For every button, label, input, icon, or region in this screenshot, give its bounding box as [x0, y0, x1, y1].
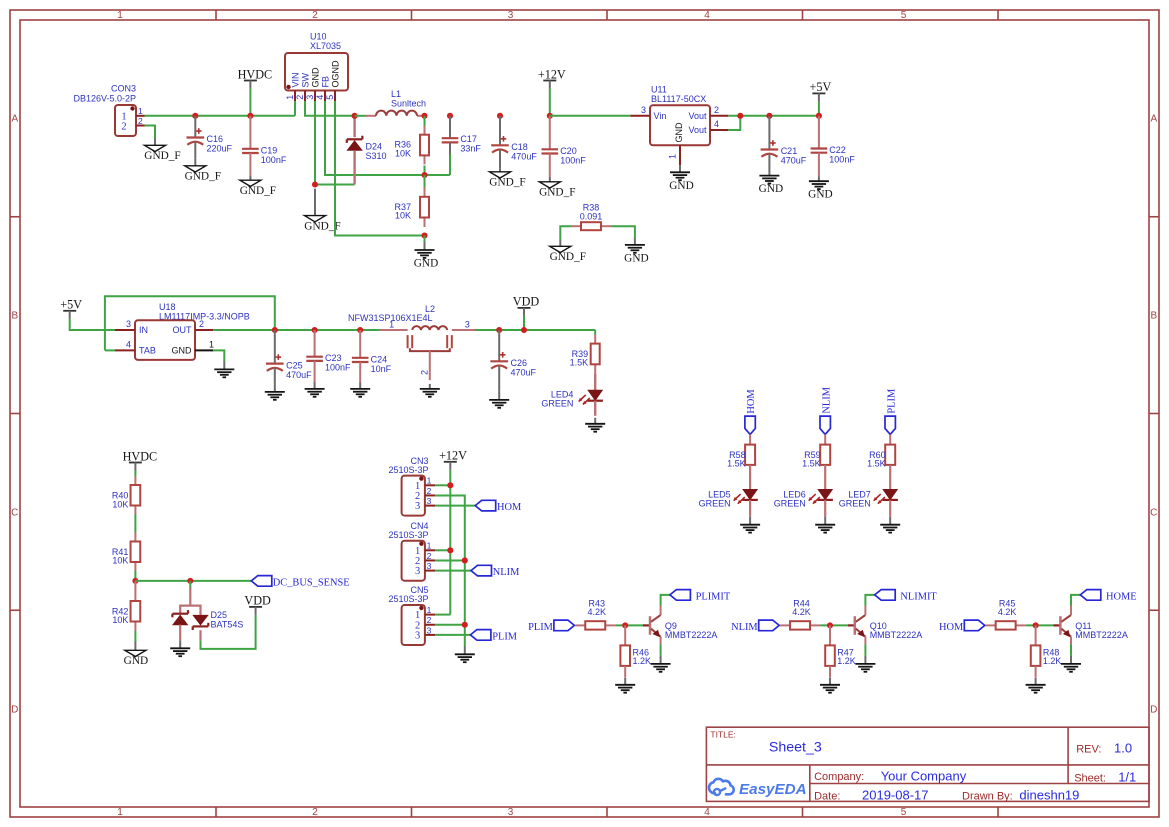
- svg-text:3: 3: [415, 501, 420, 512]
- svg-text:100nF: 100nF: [829, 154, 855, 164]
- wire emitter to ground: [660, 644, 662, 656]
- svg-text:4: 4: [704, 807, 710, 818]
- svg-text:100nF: 100nF: [261, 155, 287, 165]
- svg-text:1: 1: [427, 605, 432, 615]
- wire D25 right to VDD: [201, 615, 256, 649]
- wire R38 right to GND: [611, 226, 635, 238]
- ground below C26: [489, 392, 509, 408]
- net flag HOM input: [939, 620, 985, 633]
- svg-text:2: 2: [427, 615, 432, 625]
- svg-text:2: 2: [312, 10, 318, 21]
- wire emitter to ground: [1070, 644, 1072, 656]
- ground below LED5: [740, 517, 760, 533]
- ground below R46: [615, 678, 635, 693]
- svg-text:1: 1: [117, 807, 123, 818]
- ground below C23: [305, 382, 325, 397]
- capacitor C19 100nF: [242, 116, 287, 178]
- junction C21 top: [766, 113, 772, 119]
- svg-text:GREEN: GREEN: [774, 498, 806, 508]
- company field: [814, 768, 967, 783]
- junction base / R47: [827, 622, 833, 628]
- wire HVDC down to rail: [249, 89, 251, 116]
- svg-text:220uF: 220uF: [207, 144, 233, 154]
- capacitor C22 100nF: [811, 116, 856, 177]
- ground GND_F below C19: [240, 176, 276, 197]
- svg-text:10K: 10K: [395, 211, 411, 221]
- svg-text:33nF: 33nF: [460, 144, 481, 154]
- svg-text:D: D: [11, 705, 18, 716]
- ground below R47: [820, 678, 840, 693]
- svg-text:D24: D24: [366, 142, 383, 152]
- svg-text:S310: S310: [366, 151, 387, 161]
- junction R36 bottom / R37 top: [421, 172, 427, 178]
- wire +12V down to CN pin1 column: [449, 470, 451, 615]
- wire +5V corner to TAB pin: [105, 349, 115, 351]
- svg-text:1.2K: 1.2K: [633, 656, 652, 666]
- resistor R46 1.2K: [620, 625, 651, 677]
- transistor Q11 MMBT2222A: [1060, 606, 1127, 645]
- svg-text:2: 2: [199, 319, 204, 329]
- connector CN3 2510S-3P: [388, 456, 435, 516]
- wire base stub: [643, 624, 650, 626]
- svg-text:3: 3: [508, 807, 514, 818]
- svg-text:C16: C16: [207, 134, 224, 144]
- svg-text:BL1117-50CX: BL1117-50CX: [651, 94, 706, 104]
- junction C22 top: [816, 113, 822, 119]
- connector CON3 DB126V-5.0-2P: [73, 84, 144, 137]
- net flag HOME output: [1080, 590, 1136, 603]
- svg-text:CON3: CON3: [111, 84, 136, 94]
- ground GND_F left of R38: [550, 240, 586, 263]
- ground below L2 pin2: [420, 384, 440, 397]
- wire junction to R37: [424, 175, 426, 188]
- svg-text:Your Company: Your Company: [881, 768, 967, 783]
- svg-text:1: 1: [209, 339, 214, 349]
- svg-text:VDD: VDD: [513, 295, 540, 309]
- wire junction to R36: [424, 116, 426, 127]
- resistor R48 1.2K: [1031, 625, 1062, 677]
- filter L2 NFW31SP106X1E4L: [348, 304, 475, 380]
- svg-text:1.2K: 1.2K: [1043, 656, 1062, 666]
- svg-text:3: 3: [415, 566, 420, 577]
- svg-text:1: 1: [668, 154, 678, 159]
- svg-text:C: C: [11, 508, 18, 519]
- wire U11 Vout pin2 to +5V rail: [728, 115, 819, 117]
- frame column numbers top: [117, 10, 907, 21]
- junction VDD: [521, 327, 527, 333]
- svg-text:OUT: OUT: [173, 325, 193, 335]
- ground below Q11 emitter: [1061, 656, 1081, 672]
- svg-text:IN: IN: [139, 325, 148, 335]
- svg-text:GND: GND: [669, 180, 693, 192]
- svg-text:1: 1: [427, 541, 432, 551]
- junction DC_BUS_SENSE: [132, 578, 138, 584]
- svg-text:HVDC: HVDC: [238, 67, 273, 81]
- svg-text:HOM: HOM: [497, 502, 521, 513]
- node +12V top: [538, 67, 566, 88]
- svg-text:4: 4: [704, 10, 710, 21]
- svg-text:GREEN: GREEN: [839, 498, 871, 508]
- svg-text:4.2K: 4.2K: [998, 607, 1017, 617]
- junction C25 top / TAB loop: [272, 327, 278, 333]
- svg-text:D25: D25: [211, 610, 228, 620]
- junction CN3 pin1 +12V: [447, 482, 453, 488]
- svg-text:C24: C24: [371, 354, 388, 364]
- svg-text:10K: 10K: [112, 556, 128, 566]
- LED6 GREEN: [774, 489, 833, 516]
- junction CN4 pin1 +12V: [447, 547, 453, 553]
- junction base / R46: [622, 622, 628, 628]
- node HVDC row C: [123, 449, 158, 470]
- svg-text:1.5K: 1.5K: [867, 458, 886, 468]
- svg-text:470uF: 470uF: [511, 367, 537, 377]
- inductor L1 Sunltech: [355, 89, 426, 116]
- svg-text:D: D: [1150, 705, 1157, 716]
- svg-text:100nF: 100nF: [325, 363, 351, 373]
- junction D24 top: [352, 113, 358, 119]
- wire R36 bottom to junction: [424, 166, 426, 176]
- resistor R37 10K: [394, 187, 429, 227]
- frame row letters left: [11, 114, 18, 716]
- wire CN5 pin2 stub: [435, 624, 465, 626]
- svg-text:470uF: 470uF: [781, 156, 807, 166]
- svg-text:MMBT2222A: MMBT2222A: [665, 630, 718, 640]
- sheet field: [1074, 769, 1136, 784]
- svg-text:MMBT2222A: MMBT2222A: [870, 630, 923, 640]
- ground below Q9 emitter: [651, 656, 671, 672]
- svg-text:C: C: [1150, 508, 1157, 519]
- wire +5V down: [818, 101, 820, 115]
- svg-text:4: 4: [714, 119, 719, 129]
- svg-text:10K: 10K: [112, 615, 128, 625]
- svg-text:Vout: Vout: [688, 111, 707, 121]
- resistor R43 4.2K: [575, 598, 615, 629]
- wire base stub: [1053, 624, 1060, 626]
- svg-text:2510S-3P: 2510S-3P: [388, 594, 428, 604]
- svg-text:1: 1: [117, 10, 123, 21]
- ground below LED6: [815, 517, 835, 533]
- svg-text:C21: C21: [781, 146, 798, 156]
- svg-text:2: 2: [714, 105, 719, 115]
- svg-text:FB: FB: [320, 76, 330, 88]
- ground GND_F below C16: [185, 159, 221, 183]
- net flag PLIM vertical: [885, 389, 897, 435]
- title block frame: [706, 727, 1149, 801]
- svg-text:A: A: [1150, 114, 1157, 125]
- wire collector to PLIMIT flag: [661, 595, 670, 606]
- ground below R48: [1026, 678, 1046, 693]
- ground below D25 left: [170, 640, 190, 656]
- wire U18 TAB loop to OUT rail: [105, 296, 275, 350]
- svg-text:GND: GND: [759, 183, 783, 195]
- svg-text:C19: C19: [261, 145, 278, 155]
- wire R43 to base junction: [615, 624, 643, 626]
- capacitor C23 100nF: [306, 330, 351, 382]
- svg-text:GND: GND: [624, 252, 648, 264]
- ground GND below R37: [414, 242, 438, 270]
- svg-text:1.0: 1.0: [1114, 741, 1132, 756]
- svg-text:DB126V-5.0-2P: DB126V-5.0-2P: [73, 94, 136, 104]
- svg-text:3: 3: [305, 95, 315, 100]
- wire U10 pin1 VIN down to input rail: [294, 101, 296, 116]
- svg-text:VDD: VDD: [244, 594, 271, 608]
- capacitor C26 470uF polarized: [490, 330, 536, 392]
- capacitor C17 33nF: [442, 116, 482, 155]
- svg-text:NLIM: NLIM: [731, 622, 758, 633]
- svg-text:3: 3: [415, 631, 420, 642]
- svg-text:3: 3: [427, 496, 432, 506]
- node +5V row B: [60, 298, 82, 319]
- svg-text:GREEN: GREEN: [541, 399, 573, 409]
- svg-text:4: 4: [126, 339, 131, 349]
- junction R36 top: [421, 113, 427, 119]
- svg-text:NLIMIT: NLIMIT: [900, 592, 937, 603]
- wire R44 to base junction: [820, 624, 848, 626]
- svg-text:PLIM: PLIM: [886, 389, 897, 414]
- svg-text:GND: GND: [172, 346, 193, 356]
- junction CN4 pin2: [462, 557, 468, 563]
- svg-text:+12V: +12V: [538, 67, 566, 81]
- svg-text:2019-08-17: 2019-08-17: [862, 788, 929, 803]
- wire DC_BUS_SENSE rail: [135, 580, 251, 582]
- ground GND right of R38: [624, 238, 648, 265]
- svg-text:2510S-3P: 2510S-3P: [388, 465, 428, 475]
- svg-text:U18: U18: [159, 302, 176, 312]
- svg-text:100nF: 100nF: [560, 155, 586, 165]
- svg-text:2510S-3P: 2510S-3P: [388, 530, 428, 540]
- resistor R45 4.2K: [986, 598, 1026, 629]
- svg-text:U11: U11: [651, 85, 667, 95]
- svg-text:Date:: Date:: [814, 791, 840, 803]
- junction D25 branch: [187, 578, 193, 584]
- resistor R41 10K: [112, 533, 140, 572]
- ground GND below R42 triangle style: [124, 642, 148, 667]
- net flag NLIM input: [731, 620, 779, 633]
- regulator U10 XL7035: [285, 32, 348, 102]
- wire +12V down to rail: [549, 89, 551, 116]
- resistor R47 1.2K: [825, 625, 856, 677]
- ground below Q10 emitter: [855, 656, 875, 672]
- diode D25 BAT54S dual schottky: [172, 581, 243, 640]
- svg-text:+5V: +5V: [60, 298, 82, 312]
- svg-text:GND: GND: [414, 258, 438, 270]
- svg-text:1/1: 1/1: [1118, 769, 1136, 784]
- net flag NLIM at CN4: [471, 565, 519, 578]
- svg-text:TAB: TAB: [139, 346, 156, 356]
- ground GND below C21: [759, 173, 783, 196]
- LED7 GREEN: [839, 489, 898, 516]
- svg-text:dineshn19: dineshn19: [1019, 788, 1079, 803]
- ground below CN pin2 chain: [455, 646, 475, 662]
- svg-text:Vout: Vout: [688, 125, 707, 135]
- LED5 GREEN: [699, 489, 758, 516]
- wire R38 left to GND_F: [560, 226, 571, 240]
- wire R45 to base junction: [1026, 624, 1054, 626]
- wire CN3 pin3 to HOM flag: [435, 505, 475, 507]
- wire CN5 pin3 to PLIM flag: [435, 634, 470, 636]
- svg-text:1.5K: 1.5K: [802, 458, 821, 468]
- svg-text:A: A: [11, 114, 18, 125]
- svg-text:1: 1: [138, 106, 143, 116]
- resistor R60 1.5K: [867, 434, 895, 489]
- svg-text:PLIM: PLIM: [528, 622, 553, 633]
- junction Vout pins: [737, 113, 743, 119]
- ground below C25: [265, 384, 285, 400]
- svg-text:C23: C23: [325, 353, 342, 363]
- svg-text:GND_F: GND_F: [185, 171, 221, 183]
- connector CN4 2510S-3P: [388, 521, 435, 581]
- wire CN4 pin3 to NLIM flag: [435, 570, 471, 572]
- resistor R38 0.091 shunt: [571, 203, 611, 231]
- svg-text:2: 2: [427, 486, 432, 496]
- frame row letters right: [1150, 114, 1157, 716]
- svg-text:REV:: REV:: [1076, 744, 1101, 756]
- node HVDC top: [238, 67, 273, 88]
- svg-text:Sheet:: Sheet:: [1074, 772, 1106, 784]
- ground below LED7: [880, 517, 900, 533]
- wire U10 pin4 FB down and right to R36 bottom rail: [325, 101, 450, 175]
- resistor R40 10K: [112, 477, 140, 515]
- wire emitter to ground: [864, 644, 866, 656]
- svg-text:5: 5: [901, 807, 907, 818]
- svg-text:HOM: HOM: [746, 389, 757, 413]
- net flag PLIM input: [528, 620, 574, 633]
- svg-text:C22: C22: [829, 145, 846, 155]
- svg-text:2: 2: [427, 551, 432, 561]
- svg-text:4: 4: [315, 95, 325, 100]
- svg-text:+5V: +5V: [810, 80, 832, 94]
- svg-text:SW: SW: [300, 72, 310, 87]
- svg-text:Drawn By:: Drawn By:: [962, 791, 1013, 803]
- title text Sheet_3: [710, 729, 821, 755]
- wire R42 bottom to GND: [134, 631, 136, 642]
- ground GND below U18 pin1: [214, 361, 234, 377]
- svg-text:HOM: HOM: [939, 622, 963, 633]
- junction C20 top: [547, 113, 553, 119]
- svg-text:GND: GND: [124, 655, 148, 667]
- wire +5V to U18 IN: [70, 319, 115, 330]
- svg-text:2: 2: [121, 121, 126, 132]
- net flag NLIM vertical: [820, 387, 832, 434]
- resistor R42 10K: [112, 581, 140, 631]
- wire base stub: [848, 624, 855, 626]
- junction C18 top: [497, 113, 503, 119]
- regulator U18 LM1117IMP-3.3/NOPB: [115, 302, 250, 360]
- svg-text:GREEN: GREEN: [699, 498, 731, 508]
- transistor Q9 MMBT2222A: [650, 606, 717, 645]
- resistor R58 1.5K: [727, 434, 755, 489]
- svg-text:2: 2: [419, 370, 429, 375]
- svg-text:GND_F: GND_F: [550, 251, 586, 263]
- wire CN3 pin1: [435, 484, 450, 486]
- svg-text:C17: C17: [460, 134, 477, 144]
- node VDD at D25: [244, 594, 271, 615]
- wire U11 Vout pin4 up to rail: [728, 116, 740, 130]
- svg-text:Sunltech: Sunltech: [391, 99, 426, 109]
- svg-text:GND: GND: [310, 67, 320, 88]
- wire rail to U11 Vin: [550, 115, 631, 117]
- svg-text:HVDC: HVDC: [123, 449, 158, 463]
- wire HVDC down to R40: [134, 471, 136, 477]
- junction base / R48: [1033, 622, 1039, 628]
- ground GND_F below U10 pin3: [304, 189, 340, 233]
- svg-text:VIN: VIN: [290, 72, 300, 87]
- svg-text:10K: 10K: [112, 499, 128, 509]
- date field: [814, 788, 1079, 803]
- junction CN5 pin2: [462, 622, 468, 628]
- wire U18 OUT rail row B: [213, 329, 379, 331]
- junction C17 top: [447, 113, 453, 119]
- junction C24 top: [357, 327, 363, 333]
- svg-text:C26: C26: [511, 358, 528, 368]
- svg-text:2: 2: [295, 95, 305, 100]
- regulator U11 BL1117-50CX: [630, 85, 728, 166]
- wire CN pin2 chain to ground: [435, 495, 465, 646]
- wire U10 pin5 OGND down and right to R37 bottom: [335, 101, 425, 236]
- svg-text:4.2K: 4.2K: [587, 607, 606, 617]
- junction C26 top: [496, 327, 502, 333]
- net flag HOM vertical: [745, 389, 757, 434]
- svg-text:GND_F: GND_F: [240, 185, 276, 197]
- ground GND below C22: [808, 177, 832, 201]
- svg-text:3: 3: [427, 625, 432, 635]
- capacitor C18 470uF polarized: [491, 116, 537, 169]
- frame column numbers bottom: [117, 807, 907, 818]
- capacitor C16 220uF polarized: [187, 116, 233, 159]
- svg-text:NLIM: NLIM: [821, 387, 832, 414]
- svg-text:L1: L1: [391, 89, 401, 99]
- svg-text:DC_BUS_SENSE: DC_BUS_SENSE: [273, 577, 350, 588]
- svg-text:EasyEDA: EasyEDA: [739, 781, 807, 798]
- rev field: [1076, 741, 1132, 756]
- wire CN4 pin2 stub: [435, 559, 465, 561]
- capacitor C21 470uF polarized: [761, 116, 807, 173]
- svg-text:TITLE:: TITLE:: [710, 729, 736, 739]
- svg-text:3: 3: [427, 561, 432, 571]
- node +5V top right: [810, 80, 832, 101]
- svg-text:GND_F: GND_F: [539, 187, 575, 199]
- svg-text:3: 3: [508, 10, 514, 21]
- svg-text:OGND: OGND: [330, 60, 340, 88]
- svg-text:10K: 10K: [395, 148, 411, 158]
- wire U10 pin3 GND down and right to D24 anode: [315, 101, 355, 185]
- svg-text:3: 3: [465, 320, 470, 330]
- net flag NLIMIT output: [875, 590, 938, 603]
- junction C23 top: [312, 327, 318, 333]
- wire CON3 pin1 to U10 VIN rail: [145, 115, 296, 117]
- wire R40 to R41: [134, 514, 136, 533]
- svg-text:C25: C25: [286, 361, 303, 371]
- ground GND_F below C20: [539, 177, 575, 199]
- LED4 GREEN: [541, 373, 603, 416]
- ground below C24: [350, 383, 370, 397]
- svg-text:PLIM: PLIM: [492, 632, 517, 643]
- svg-text:470uF: 470uF: [511, 151, 537, 161]
- svg-text:470uF: 470uF: [286, 370, 312, 380]
- junction C16 top: [192, 113, 198, 119]
- wire C17 bottom to FB rail: [449, 155, 451, 176]
- capacitor C20 100nF: [542, 116, 587, 177]
- capacitor C24 10nF: [352, 330, 392, 383]
- svg-text:NLIM: NLIM: [493, 567, 520, 578]
- svg-text:C20: C20: [560, 146, 577, 156]
- net flag HOM at CN3: [475, 500, 521, 513]
- svg-text:5: 5: [325, 95, 335, 100]
- node +12V row C: [439, 449, 467, 470]
- svg-text:2: 2: [138, 116, 143, 126]
- wire CON3 pin2 to GND_F: [145, 126, 156, 139]
- ground below LED4: [585, 418, 605, 432]
